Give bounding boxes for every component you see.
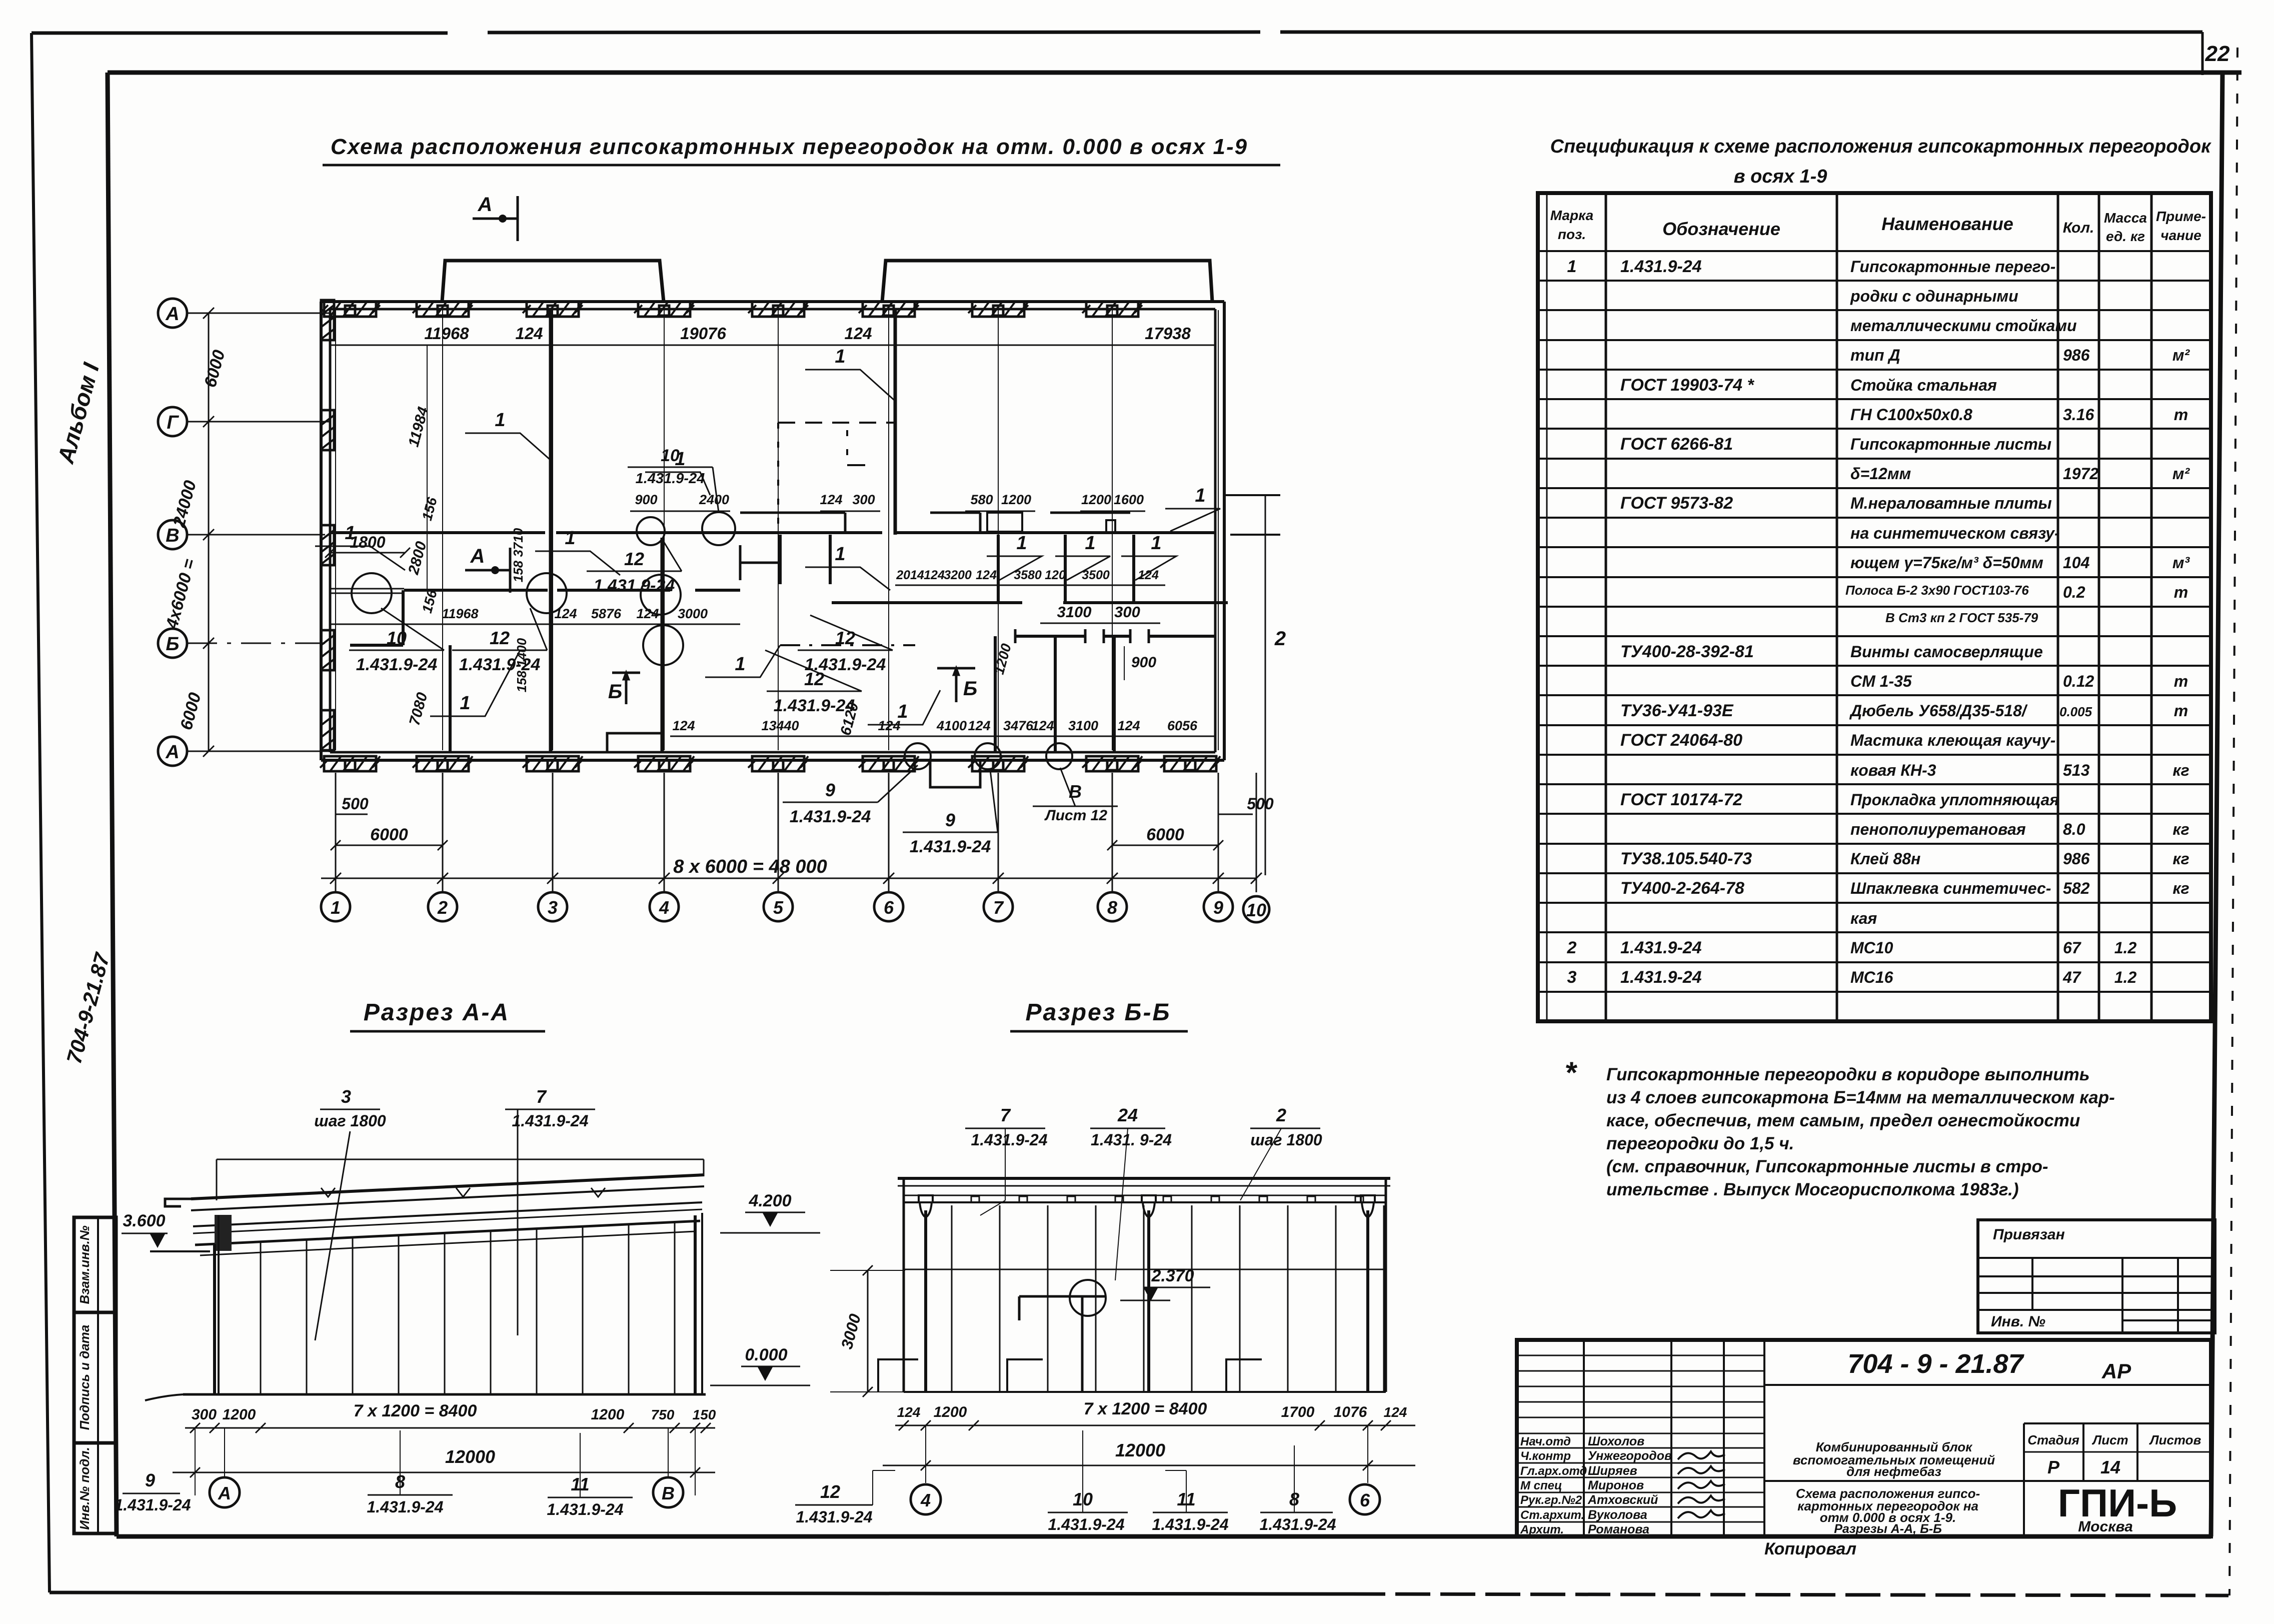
svg-text:1.431.9-24: 1.431.9-24 — [1152, 1515, 1228, 1533]
svg-text:120: 120 — [1045, 568, 1066, 582]
svg-text:3476: 3476 — [1003, 718, 1034, 733]
svg-text:14: 14 — [2100, 1457, 2120, 1477]
svg-text:500: 500 — [1247, 795, 1274, 813]
svg-text:3.16: 3.16 — [2063, 406, 2094, 424]
svg-text:8: 8 — [1107, 897, 1117, 918]
svg-text:А: А — [478, 194, 493, 216]
svg-text:6: 6 — [884, 897, 894, 918]
svg-text:Б: Б — [963, 678, 977, 700]
svg-text:ТУ400-2-264-78: ТУ400-2-264-78 — [1620, 879, 1744, 898]
svg-text:9: 9 — [145, 1470, 155, 1490]
svg-text:7: 7 — [1000, 1105, 1011, 1125]
svg-text:Лист 12: Лист 12 — [1044, 807, 1107, 824]
svg-text:4.200: 4.200 — [748, 1191, 791, 1210]
svg-text:*: * — [1564, 1056, 1577, 1089]
svg-text:кг: кг — [2172, 879, 2189, 897]
svg-text:ГОСТ 9573-82: ГОСТ 9573-82 — [1620, 494, 1733, 513]
svg-text:1.431.9-24: 1.431.9-24 — [114, 1496, 191, 1514]
svg-text:1: 1 — [331, 897, 341, 918]
svg-text:ГОСТ 6266-81: ГОСТ 6266-81 — [1620, 435, 1733, 454]
svg-text:124: 124 — [976, 568, 997, 582]
svg-text:124: 124 — [968, 718, 990, 733]
svg-text:67: 67 — [2063, 939, 2082, 957]
svg-text:Винты самосверлящие: Винты самосверлящие — [1850, 643, 2043, 661]
svg-text:ТУ36-У41-93Е: ТУ36-У41-93Е — [1620, 701, 1734, 720]
svg-text:7: 7 — [536, 1086, 547, 1107]
svg-text:1.431.9-24: 1.431.9-24 — [1620, 968, 1702, 987]
svg-text:Ст.архит.: Ст.архит. — [1520, 1508, 1584, 1522]
svg-text:кг: кг — [2172, 850, 2189, 868]
svg-text:1.431.9-24: 1.431.9-24 — [1620, 938, 1702, 957]
svg-text:8 x 6000 = 48 000: 8 x 6000 = 48 000 — [673, 856, 827, 877]
svg-text:124: 124 — [1031, 718, 1054, 733]
svg-text:1600: 1600 — [1114, 492, 1144, 507]
svg-text:124: 124 — [1117, 718, 1140, 733]
svg-text:1200: 1200 — [223, 1406, 256, 1423]
svg-text:986: 986 — [2063, 850, 2090, 868]
svg-text:δ=12мм: δ=12мм — [1850, 465, 1911, 483]
svg-text:9: 9 — [945, 810, 955, 830]
svg-text:300: 300 — [192, 1406, 217, 1423]
svg-text:1.431.9-24: 1.431.9-24 — [356, 655, 438, 674]
svg-text:Масса: Масса — [2104, 210, 2147, 226]
svg-text:на синтетическом связу-: на синтетическом связу- — [1850, 524, 2060, 542]
svg-text:шаг 1800: шаг 1800 — [1250, 1131, 1322, 1149]
svg-text:ительстве . Выпуск Мосгориспо: ительстве . Выпуск Мосгорисполкома 1983г… — [1606, 1180, 2019, 1199]
svg-text:2: 2 — [1567, 938, 1577, 957]
svg-text:1.431.9-24: 1.431.9-24 — [971, 1131, 1047, 1149]
svg-text:1: 1 — [345, 523, 355, 544]
svg-text:7 x 1200 = 8400: 7 x 1200 = 8400 — [354, 1401, 477, 1420]
svg-text:7 x 1200 = 8400: 7 x 1200 = 8400 — [1084, 1399, 1207, 1418]
svg-text:Инв.№ подл.: Инв.№ подл. — [77, 1447, 92, 1530]
svg-text:1: 1 — [1016, 533, 1027, 554]
svg-text:2.370: 2.370 — [1151, 1266, 1194, 1285]
svg-text:ГОСТ 19903-74 *: ГОСТ 19903-74 * — [1620, 376, 1754, 395]
svg-text:12: 12 — [820, 1481, 840, 1502]
svg-text:Стойка стальная: Стойка стальная — [1850, 376, 1997, 394]
svg-text:поз.: поз. — [1558, 227, 1586, 242]
svg-text:м²: м² — [2172, 346, 2190, 364]
svg-text:Унжегородов: Унжегородов — [1588, 1449, 1672, 1463]
svg-text:Подпись и дата: Подпись и дата — [77, 1325, 92, 1430]
svg-text:А: А — [165, 304, 179, 325]
svg-text:582: 582 — [2063, 879, 2090, 897]
svg-text:Листов: Листов — [2149, 1432, 2201, 1447]
svg-text:Москва: Москва — [2078, 1518, 2133, 1535]
svg-text:7: 7 — [993, 897, 1004, 918]
svg-text:Полоса Б-2 3х90 ГОСТ103-76: Полоса Б-2 3х90 ГОСТ103-76 — [1845, 583, 2029, 598]
svg-text:т: т — [2174, 702, 2188, 720]
svg-text:9: 9 — [1213, 897, 1223, 918]
svg-text:124: 124 — [554, 606, 577, 621]
svg-text:1.431.9-24: 1.431.9-24 — [774, 696, 855, 715]
svg-text:1200: 1200 — [591, 1406, 625, 1423]
svg-text:24: 24 — [1117, 1105, 1138, 1125]
svg-text:124: 124 — [897, 1404, 921, 1420]
svg-text:тип Д: тип Д — [1850, 346, 1900, 364]
svg-text:Ч.контр: Ч.контр — [1520, 1449, 1571, 1463]
svg-text:1.431.9-24: 1.431.9-24 — [1620, 257, 1702, 276]
svg-text:Б: Б — [166, 634, 180, 655]
svg-text:1: 1 — [1151, 533, 1161, 554]
svg-text:1.431.9-24: 1.431.9-24 — [636, 471, 705, 487]
svg-text:47: 47 — [2062, 968, 2082, 986]
svg-text:0.005: 0.005 — [2059, 704, 2092, 719]
svg-text:ющем γ=75кг/м³ δ=50мм: ющем γ=75кг/м³ δ=50мм — [1850, 554, 2043, 572]
svg-text:т: т — [2174, 583, 2188, 601]
svg-text:3: 3 — [341, 1086, 351, 1107]
svg-text:Гипсокартонные перегородки в: Гипсокартонные перегородки в коридоре вы… — [1606, 1065, 2090, 1084]
svg-text:1200: 1200 — [1081, 492, 1111, 507]
svg-text:9: 9 — [825, 780, 835, 800]
svg-text:Взам.инв.№: Взам.инв.№ — [77, 1225, 92, 1304]
svg-text:Архит.: Архит. — [1520, 1523, 1564, 1536]
svg-text:4100: 4100 — [936, 718, 967, 733]
svg-text:Разрез А-А: Разрез А-А — [364, 999, 510, 1026]
svg-text:перегородки до 1,5 ч.: перегородки до 1,5 ч. — [1606, 1134, 1794, 1153]
svg-text:Шохолов: Шохолов — [1588, 1434, 1644, 1448]
svg-text:5876: 5876 — [591, 606, 622, 621]
svg-text:124: 124 — [924, 568, 945, 582]
svg-text:ТУ400-28-392-81: ТУ400-28-392-81 — [1620, 642, 1754, 661]
svg-text:Кол.: Кол. — [2063, 220, 2094, 236]
svg-text:т: т — [2174, 672, 2188, 690]
svg-text:3: 3 — [1567, 968, 1577, 987]
svg-text:1200: 1200 — [1001, 492, 1031, 507]
svg-text:МС16: МС16 — [1850, 968, 1893, 986]
svg-text:2: 2 — [1276, 1105, 1286, 1125]
svg-text:Романова: Романова — [1588, 1522, 1649, 1536]
svg-text:Атховский: Атховский — [1587, 1493, 1658, 1507]
svg-text:ед. кг: ед. кг — [2106, 229, 2145, 244]
svg-text:Стадия: Стадия — [2027, 1432, 2079, 1447]
svg-text:1.431.9-24: 1.431.9-24 — [910, 837, 991, 856]
svg-text:Разрезы А-А, Б-Б: Разрезы А-А, Б-Б — [1834, 1522, 1942, 1536]
svg-text:ТУ38.105.540-73: ТУ38.105.540-73 — [1620, 849, 1752, 868]
svg-text:19076: 19076 — [680, 324, 726, 343]
svg-text:кг: кг — [2172, 820, 2189, 838]
svg-text:1: 1 — [835, 544, 845, 565]
svg-text:3100: 3100 — [1068, 718, 1098, 733]
svg-text:3: 3 — [548, 897, 558, 918]
svg-text:ГОСТ 10174-72: ГОСТ 10174-72 — [1620, 790, 1742, 809]
svg-text:11968: 11968 — [424, 324, 469, 343]
svg-text:300: 300 — [1114, 603, 1140, 621]
svg-text:кг: кг — [2172, 761, 2189, 779]
svg-text:150: 150 — [693, 1407, 716, 1422]
svg-text:22: 22 — [2205, 42, 2230, 66]
svg-text:м³: м³ — [2172, 554, 2190, 572]
svg-text:чание: чание — [2160, 228, 2201, 243]
svg-text:родки с одинарными: родки с одинарными — [1850, 287, 2018, 305]
svg-text:0.000: 0.000 — [745, 1345, 787, 1364]
svg-text:Шпаклевка синтетичес-: Шпаклевка синтетичес- — [1850, 879, 2051, 897]
svg-text:Схема расположения гипсокарт: Схема расположения гипсокартонных перего… — [331, 135, 1248, 159]
svg-text:1.431.9-24: 1.431.9-24 — [512, 1112, 588, 1130]
svg-text:Клей 88н: Клей 88н — [1850, 850, 1920, 868]
svg-text:2: 2 — [1274, 628, 1286, 650]
svg-text:12: 12 — [624, 549, 644, 569]
svg-text:касе, обеспечив, тем самым, п: касе, обеспечив, тем самым, предел огнес… — [1606, 1111, 2080, 1130]
svg-text:М.нераловатные плиты: М.нераловатные плиты — [1850, 494, 2052, 512]
svg-text:2: 2 — [437, 897, 448, 918]
svg-text:Миронов: Миронов — [1588, 1478, 1644, 1492]
svg-text:1076: 1076 — [1334, 1404, 1367, 1420]
svg-text:1.431. 9-24: 1.431. 9-24 — [1091, 1131, 1172, 1149]
svg-text:А: А — [165, 742, 179, 763]
svg-text:Наименование: Наименование — [1881, 214, 2013, 234]
svg-text:Б: Б — [608, 681, 622, 703]
svg-text:6000: 6000 — [1146, 825, 1184, 844]
svg-text:Лист: Лист — [2091, 1432, 2128, 1447]
svg-text:1972: 1972 — [2063, 465, 2098, 483]
svg-text:1: 1 — [1195, 485, 1205, 506]
svg-text:986: 986 — [2063, 346, 2090, 364]
svg-text:т: т — [2174, 406, 2188, 424]
svg-text:СМ 1-35: СМ 1-35 — [1850, 672, 1912, 690]
svg-text:ГН С100х50х0.8: ГН С100х50х0.8 — [1850, 406, 1972, 424]
svg-text:из 4 слоев гипсокартона Б=1: из 4 слоев гипсокартона Б=14мм на металл… — [1606, 1088, 2115, 1107]
svg-text:1.431.9-24: 1.431.9-24 — [790, 807, 871, 826]
svg-text:3000: 3000 — [678, 606, 708, 621]
svg-text:шаг 1800: шаг 1800 — [314, 1112, 386, 1130]
svg-text:пенополиуретановая: пенополиуретановая — [1850, 820, 2026, 838]
svg-text:Дюбель У658/Д35-518/: Дюбель У658/Д35-518/ — [1849, 702, 2028, 720]
svg-text:1700: 1700 — [1281, 1404, 1315, 1420]
svg-text:1200: 1200 — [934, 1404, 967, 1420]
svg-text:Гл.арх.отд: Гл.арх.отд — [1520, 1464, 1587, 1478]
svg-text:4: 4 — [659, 897, 669, 918]
svg-text:300: 300 — [852, 492, 875, 507]
svg-text:Р: Р — [2047, 1457, 2060, 1477]
svg-text:1.431.9-24: 1.431.9-24 — [547, 1500, 623, 1518]
svg-text:10: 10 — [1246, 900, 1266, 920]
svg-text:1: 1 — [495, 410, 505, 431]
svg-text:6056: 6056 — [1167, 718, 1198, 733]
svg-text:124: 124 — [1384, 1404, 1407, 1420]
svg-text:4: 4 — [920, 1490, 931, 1510]
svg-text:1: 1 — [897, 701, 908, 722]
svg-text:М спец: М спец — [1520, 1479, 1562, 1492]
svg-text:1: 1 — [1085, 533, 1095, 554]
svg-text:В: В — [662, 1483, 675, 1503]
svg-text:5: 5 — [773, 897, 784, 918]
svg-text:металлическими стойками: металлическими стойками — [1850, 317, 2077, 335]
svg-text:3.600: 3.600 — [123, 1211, 165, 1230]
svg-text:11968: 11968 — [442, 606, 478, 621]
svg-text:0.12: 0.12 — [2063, 672, 2094, 690]
svg-text:Нач.отд: Нач.отд — [1520, 1435, 1571, 1448]
svg-text:Спецификация к схеме распол: Спецификация к схеме расположения гипсок… — [1550, 136, 2212, 157]
svg-text:750: 750 — [651, 1407, 675, 1422]
svg-text:АР: АР — [2101, 1359, 2131, 1383]
svg-text:Обозначение: Обозначение — [1662, 219, 1780, 239]
svg-text:МС10: МС10 — [1850, 939, 1893, 957]
svg-text:704 - 9 - 21.87: 704 - 9 - 21.87 — [1847, 1349, 2024, 1379]
svg-text:ковая КН-3: ковая КН-3 — [1850, 761, 1936, 779]
svg-text:8.0: 8.0 — [2063, 820, 2085, 838]
svg-text:Вуколова: Вуколова — [1588, 1508, 1647, 1522]
svg-text:6: 6 — [1360, 1490, 1370, 1510]
svg-text:1.431.9-24: 1.431.9-24 — [594, 576, 675, 595]
svg-text:ГОСТ 24064-80: ГОСТ 24064-80 — [1620, 731, 1742, 750]
svg-text:1: 1 — [1567, 257, 1577, 276]
svg-text:17938: 17938 — [1145, 324, 1191, 343]
svg-text:12000: 12000 — [445, 1446, 495, 1467]
svg-text:158 3710: 158 3710 — [511, 528, 526, 582]
svg-text:Марка: Марка — [1550, 208, 1593, 223]
svg-text:Гипсокартонные перего-: Гипсокартонные перего- — [1850, 258, 2055, 276]
svg-text:1.431.9-24: 1.431.9-24 — [796, 1508, 872, 1526]
svg-text:580: 580 — [970, 492, 993, 507]
svg-text:2014: 2014 — [896, 568, 924, 582]
svg-text:2400: 2400 — [699, 492, 729, 507]
svg-text:Приме-: Приме- — [2156, 209, 2206, 224]
svg-text:(см. справочник, Гипсокартонны: (см. справочник, Гипсокартонные листы в … — [1606, 1157, 2048, 1176]
svg-text:м²: м² — [2172, 465, 2190, 483]
svg-text:900: 900 — [635, 492, 657, 507]
svg-text:1.431.9-24: 1.431.9-24 — [367, 1498, 443, 1516]
svg-text:10: 10 — [387, 628, 407, 648]
svg-text:6000: 6000 — [370, 825, 408, 844]
svg-text:0.2: 0.2 — [2063, 583, 2085, 601]
svg-text:в осях 1-9: в осях 1-9 — [1734, 166, 1827, 187]
svg-text:1: 1 — [565, 528, 575, 549]
svg-text:3200: 3200 — [944, 568, 972, 582]
svg-text:124: 124 — [844, 324, 872, 343]
svg-text:500: 500 — [342, 795, 369, 813]
svg-text:1: 1 — [735, 654, 745, 675]
svg-text:124: 124 — [515, 324, 543, 343]
svg-text:Инв. №: Инв. № — [1991, 1313, 2045, 1330]
svg-text:124: 124 — [1138, 568, 1159, 582]
svg-text:Рук.гр.№2: Рук.гр.№2 — [1520, 1493, 1582, 1507]
svg-text:1: 1 — [675, 449, 685, 470]
svg-text:Прокладка уплотняющая: Прокладка уплотняющая — [1850, 791, 2059, 809]
svg-text:Ширяев: Ширяев — [1588, 1464, 1637, 1478]
svg-text:В: В — [166, 525, 179, 546]
svg-text:для нефтебаз: для нефтебаз — [1846, 1464, 1941, 1479]
svg-text:124: 124 — [672, 718, 695, 733]
svg-text:А: А — [218, 1483, 231, 1503]
svg-text:А: А — [470, 545, 485, 567]
svg-text:1.431.9-24: 1.431.9-24 — [1259, 1515, 1336, 1533]
svg-text:1: 1 — [460, 693, 470, 714]
svg-text:1.2: 1.2 — [2114, 939, 2137, 957]
svg-text:12: 12 — [490, 628, 510, 648]
svg-text:12000: 12000 — [1115, 1440, 1165, 1460]
svg-text:1: 1 — [835, 346, 845, 367]
svg-text:513: 513 — [2063, 761, 2090, 779]
svg-text:1.2: 1.2 — [2114, 968, 2137, 986]
svg-text:3100: 3100 — [1057, 603, 1092, 621]
svg-text:Гипсокартонные листы: Гипсокартонные листы — [1850, 435, 2051, 453]
svg-text:Разрез Б-Б: Разрез Б-Б — [1026, 999, 1171, 1026]
svg-text:кая: кая — [1850, 909, 1877, 927]
svg-text:900: 900 — [1131, 654, 1156, 671]
svg-text:1.431.9-24: 1.431.9-24 — [1048, 1515, 1124, 1533]
svg-text:Копировал: Копировал — [1764, 1539, 1856, 1558]
svg-text:104: 104 — [2063, 554, 2090, 572]
svg-text:1.431.9-24: 1.431.9-24 — [459, 655, 541, 674]
svg-text:В: В — [1069, 781, 1082, 802]
svg-text:Г: Г — [167, 412, 179, 433]
svg-text:13440: 13440 — [761, 718, 799, 733]
svg-text:124: 124 — [820, 492, 842, 507]
svg-text:Мастика клеющая каучу-: Мастика клеющая каучу- — [1850, 731, 2055, 749]
svg-text:В Ст3 кп 2 ГОСТ 535-79: В Ст3 кп 2 ГОСТ 535-79 — [1885, 610, 2038, 625]
svg-text:Привязан: Привязан — [1993, 1226, 2065, 1243]
